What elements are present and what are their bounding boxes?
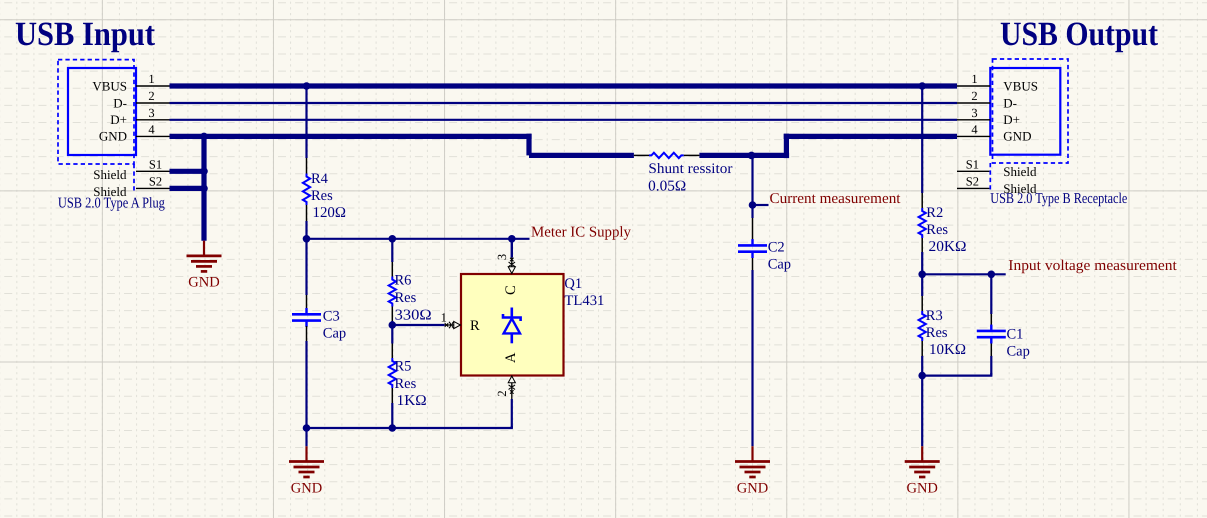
net label Input voltage measurement xyxy=(1008,258,1177,274)
svg-text:USB 2.0 Type B Receptacle: USB 2.0 Type B Receptacle xyxy=(990,191,1127,207)
svg-text:Res: Res xyxy=(926,222,948,238)
svg-text:C2: C2 xyxy=(768,240,785,256)
pin S1 Shield of J2 xyxy=(957,157,1037,179)
label R6 Res 330&#937; xyxy=(395,273,432,324)
label Q1 TL431 xyxy=(564,276,604,309)
svg-text:TL431: TL431 xyxy=(564,293,604,309)
svg-text:10KΩ: 10KΩ xyxy=(929,342,966,358)
pin 1 R of Q1 xyxy=(441,311,480,335)
wire node R to Q1 pin 1 xyxy=(392,324,444,326)
label R5 Res 1K&#937; xyxy=(395,358,427,409)
svg-text:VBUS: VBUS xyxy=(1003,78,1038,93)
pin S1 Shield of J1 xyxy=(93,157,169,182)
net label Meter IC Supply xyxy=(531,224,631,240)
svg-text:R4: R4 xyxy=(311,171,329,187)
wire shunt node down to current measurement node xyxy=(751,155,753,205)
wire VBUS net xyxy=(170,83,958,88)
svg-text:C3: C3 xyxy=(323,308,340,324)
resistor shunt 0.05 ohm xyxy=(649,153,684,158)
wire D+ net xyxy=(170,119,958,121)
svg-text:1KΩ: 1KΩ xyxy=(397,393,427,409)
wire bottom right rail xyxy=(922,373,991,376)
junction S2 column xyxy=(200,185,208,193)
svg-text:GND: GND xyxy=(99,129,127,144)
wire supply rail to R6 xyxy=(391,239,393,277)
junction VBUS R2 xyxy=(918,82,926,90)
wire right column to ground xyxy=(921,376,923,447)
connector J1 USB 2.0 Type A Plug dashed outline xyxy=(58,60,134,191)
wire R6 to node R xyxy=(391,307,393,326)
transistor Q1 TL431 internal symbol xyxy=(503,308,521,344)
wire VBUS to R4 xyxy=(305,86,307,174)
junction input voltage C1 xyxy=(988,271,996,279)
wire C2 to ground xyxy=(752,258,754,446)
svg-text:VBUS: VBUS xyxy=(92,78,127,93)
svg-text:Q1: Q1 xyxy=(564,276,582,292)
wire R3 to bottom right rail xyxy=(921,341,923,376)
wire supply rail to C3 xyxy=(305,239,307,309)
pin 4 GND of J2 xyxy=(957,122,1031,143)
wire GND net right segment xyxy=(784,134,957,139)
wire R5 to bottom rail xyxy=(391,388,393,428)
title USB Input xyxy=(15,16,156,53)
svg-text:1: 1 xyxy=(971,72,977,86)
title USB Output xyxy=(1000,16,1159,53)
svg-text:2: 2 xyxy=(971,89,977,103)
net label Current measurement xyxy=(770,191,902,207)
svg-text:GND: GND xyxy=(737,480,768,496)
junction node R xyxy=(389,321,397,329)
svg-text:Shield: Shield xyxy=(93,167,127,182)
svg-text:1: 1 xyxy=(148,72,154,86)
svg-text:Res: Res xyxy=(311,188,333,204)
svg-text:1: 1 xyxy=(441,311,447,325)
wire Q1 pin 2 to bottom rail xyxy=(511,399,513,428)
pin 1 VBUS of J2 xyxy=(957,72,1038,93)
svg-text:R3: R3 xyxy=(926,308,943,324)
svg-text:C1: C1 xyxy=(1007,327,1024,343)
wire S1 shield to ground column xyxy=(170,169,205,174)
svg-text:A: A xyxy=(503,352,519,363)
ground symbol GND input xyxy=(187,241,222,291)
pin 2 D- of J2 xyxy=(957,89,1017,110)
svg-text:GND: GND xyxy=(1003,129,1031,144)
svg-text:D+: D+ xyxy=(1003,112,1020,127)
pin S2 Shield of J1 xyxy=(93,174,169,199)
resistor R5 xyxy=(389,358,396,388)
wire node to C2 xyxy=(751,205,753,240)
svg-text:Shield: Shield xyxy=(1003,164,1037,179)
pin 2 A of Q1 xyxy=(495,352,519,399)
wire input voltage measurement xyxy=(922,273,1006,275)
svg-text:Current measurement: Current measurement xyxy=(770,191,902,207)
svg-text:R: R xyxy=(470,318,480,334)
svg-text:S1: S1 xyxy=(966,157,979,171)
svg-text:Meter IC Supply: Meter IC Supply xyxy=(531,224,631,240)
wire C1 to bottom right rail xyxy=(990,344,992,376)
svg-text:120Ω: 120Ω xyxy=(313,205,347,221)
ground symbol GND current xyxy=(735,446,770,496)
wire current measurement stub xyxy=(753,204,769,206)
svg-text:20KΩ: 20KΩ xyxy=(929,239,967,255)
connector J2 USB 2.0 Type B Receptacle dashed outline xyxy=(990,59,1068,190)
junction bottom rail R5 xyxy=(389,424,397,432)
svg-text:USB Output: USB Output xyxy=(1000,16,1159,53)
svg-text:Cap: Cap xyxy=(323,325,346,341)
junction supply rail Q1 pin3 xyxy=(508,235,516,243)
wire VBUS to R2 xyxy=(921,86,923,208)
connector J2 body rectangle xyxy=(990,68,1060,155)
label Shunt ressitor 0.05&#937; xyxy=(648,161,732,195)
wire node R to R5 xyxy=(391,325,393,358)
svg-text:D-: D- xyxy=(113,95,127,110)
wire GND net to shunt left xyxy=(529,153,634,158)
wire GND net left segment xyxy=(170,134,532,139)
label USB 2.0 Type A Plug xyxy=(58,196,165,212)
svg-text:R6: R6 xyxy=(395,273,412,289)
wire input ground column xyxy=(201,136,206,240)
wire R2 to input voltage node xyxy=(921,238,923,274)
capacitor C1 xyxy=(977,325,1006,344)
svg-text:Cap: Cap xyxy=(1007,344,1030,360)
op-amp U1 body: shunt regulator Q1 TL431 body xyxy=(461,274,564,376)
wire node to R3 xyxy=(921,274,923,311)
svg-text:C: C xyxy=(503,285,519,295)
junction VBUS R4 xyxy=(303,82,311,90)
svg-text:2: 2 xyxy=(148,89,154,103)
label C3 Cap xyxy=(323,308,346,341)
pin 4 GND of J1 xyxy=(99,122,170,143)
junction supply rail R4 xyxy=(303,235,311,243)
wire bottom ground rail xyxy=(307,426,512,428)
wire D- net xyxy=(170,102,958,104)
ground symbol GND meter xyxy=(289,446,324,496)
pin 3 D+ of J1 xyxy=(110,106,169,127)
junction shunt C2 xyxy=(748,152,756,160)
svg-text:Shunt ressitor: Shunt ressitor xyxy=(648,161,732,177)
pin 3 C of Q1 xyxy=(495,254,519,295)
svg-text:3: 3 xyxy=(148,106,154,120)
svg-text:R5: R5 xyxy=(395,358,412,374)
svg-text:4: 4 xyxy=(971,122,978,136)
svg-text:S2: S2 xyxy=(966,174,979,188)
svg-text:330Ω: 330Ω xyxy=(395,308,432,324)
label R4 Res 120&#937; xyxy=(311,171,346,221)
junction supply rail R6 xyxy=(389,235,397,243)
wire R4 to supply rail xyxy=(306,205,308,239)
label USB 2.0 Type B Receptacle xyxy=(990,191,1127,207)
pin S2 Shield of J2 xyxy=(957,174,1037,196)
shunt resistor pins xyxy=(634,154,700,156)
wire Meter IC supply rail xyxy=(307,238,530,240)
svg-text:Res: Res xyxy=(395,290,417,306)
label C2 Cap xyxy=(768,240,791,273)
pin 1 VBUS of J1 xyxy=(92,72,169,93)
svg-text:D-: D- xyxy=(1003,95,1017,110)
label R3 Res 10K&#937; xyxy=(926,308,966,358)
svg-text:USB 2.0 Type A Plug: USB 2.0 Type A Plug xyxy=(58,196,165,212)
wire bottom rail to ground xyxy=(305,428,307,446)
junction GND column xyxy=(200,133,208,141)
junction bottom rail C3 xyxy=(303,424,311,432)
svg-text:D+: D+ xyxy=(110,112,127,127)
label R2 Res 20K&#937; xyxy=(926,205,966,255)
svg-text:GND: GND xyxy=(291,480,322,496)
junction input voltage R3 xyxy=(918,271,926,279)
svg-text:Res: Res xyxy=(395,376,417,392)
resistor R3 xyxy=(919,311,926,341)
wire GND net step down xyxy=(526,134,531,156)
svg-text:3: 3 xyxy=(495,254,509,260)
capacitor C3 xyxy=(292,308,321,327)
svg-text:S2: S2 xyxy=(149,174,162,188)
capacitor C2 xyxy=(738,239,767,258)
svg-text:GND: GND xyxy=(906,480,937,496)
wire node to C1 xyxy=(990,274,992,327)
resistor R4 xyxy=(303,174,310,206)
pin 3 D+ of J2 xyxy=(957,106,1020,127)
wire Q1 pin 3 to supply rail xyxy=(511,239,513,258)
svg-text:Cap: Cap xyxy=(768,257,791,273)
wire GND net step up xyxy=(784,134,789,158)
svg-text:4: 4 xyxy=(148,122,155,136)
svg-text:2: 2 xyxy=(495,390,509,396)
svg-text:GND: GND xyxy=(188,275,219,291)
resistor R2 xyxy=(919,208,926,238)
svg-text:USB Input: USB Input xyxy=(15,16,156,53)
connector J1 body rectangle xyxy=(68,68,136,155)
svg-text:0.05Ω: 0.05Ω xyxy=(648,179,686,195)
svg-text:Input voltage measurement: Input voltage measurement xyxy=(1008,258,1177,274)
pin 2 D- of J1 xyxy=(113,89,169,110)
wire C3 to bottom rail xyxy=(306,326,308,428)
junction S1 column xyxy=(200,168,208,176)
svg-text:S1: S1 xyxy=(149,157,162,171)
wire shunt right to step xyxy=(699,153,789,158)
svg-text:R2: R2 xyxy=(926,205,943,221)
svg-text:3: 3 xyxy=(971,106,977,120)
ground symbol GND output xyxy=(905,446,940,496)
svg-text:Res: Res xyxy=(926,325,948,341)
junction current measurement xyxy=(749,201,757,209)
label C1 Cap xyxy=(1007,327,1030,360)
resistor R6 xyxy=(389,277,396,307)
wire S2 shield to ground column xyxy=(170,186,205,191)
junction bottom right rail xyxy=(918,372,926,380)
